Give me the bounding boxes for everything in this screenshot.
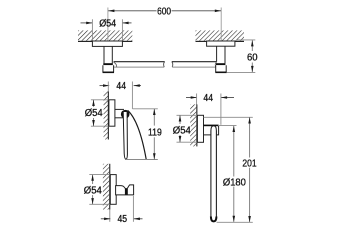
svg-text:45: 45: [118, 214, 128, 225]
hook body: [116, 185, 134, 195]
baseline bottom extension: [217, 221, 253, 223]
Ø54 dim line: [93, 100, 95, 107]
bar rail (right segment): [172, 61, 217, 63]
Ø54 top extension: [89, 174, 110, 176]
dim 45 line left: [101, 218, 111, 220]
dim 44 line left: [186, 97, 197, 99]
left end cap: [103, 65, 114, 72]
Ø54 bottom extension: [177, 141, 198, 143]
ring bottom cap (thick): [211, 217, 217, 222]
svg-text:600: 600: [157, 7, 171, 18]
Ø54 top extension: [177, 114, 198, 116]
dim 45 line right: [134, 218, 143, 220]
wall line right: [196, 41, 245, 42]
left escutcheon flange: [92, 41, 122, 46]
Ø54 label: [172, 125, 191, 134]
svg-text:Ø180: Ø180: [223, 178, 246, 189]
dim 119 top extension: [133, 108, 158, 110]
wall line lower extension: [109, 210, 111, 222]
dim Ø54 extension lines: [91, 19, 93, 41]
Ø54 label: [83, 185, 103, 194]
dim Ø180 line: [233, 126, 235, 177]
svg-text:60: 60: [247, 53, 258, 64]
svg-text:44: 44: [203, 93, 213, 104]
svg-text:201: 201: [242, 159, 257, 170]
svg-text:Ø54: Ø54: [85, 108, 103, 119]
right end cap: [216, 65, 227, 72]
dim 600 extension line left: [107, 8, 109, 41]
Ø54 dim line: [92, 175, 94, 184]
Ø54 bottom extension: [89, 203, 110, 205]
dim 119 bottom extension: [126, 159, 158, 161]
arm front strip: [123, 112, 127, 160]
Ø54 top extension: [91, 99, 109, 101]
hub block: [204, 125, 219, 135]
dim 600 arrow right: [215, 10, 221, 13]
bar rail (left segment): [114, 61, 165, 63]
dim Ø180 label: [222, 177, 247, 187]
flange (side view): [110, 175, 116, 205]
dim 44 extension right: [220, 94, 222, 125]
left stem: [103, 46, 105, 63]
svg-text:119: 119: [148, 127, 162, 138]
dim 600 arrow left: [108, 10, 114, 13]
hook waist shading: [125, 189, 128, 195]
dim 60 extension bottom: [227, 71, 256, 73]
dim 600 extension line right: [220, 8, 222, 41]
dim 600 line: [108, 10, 156, 12]
dim 44 extension left / wall top: [196, 94, 198, 105]
svg-text:44: 44: [116, 81, 126, 92]
dim 201 top extension: [204, 116, 253, 118]
wall line left: [78, 41, 132, 42]
flange (side view): [109, 100, 115, 126]
dim Ø180 top extension: [218, 124, 237, 126]
dim 60 extension top: [236, 39, 255, 41]
dim 44 extension right: [131, 82, 133, 109]
wall hatch right: [196, 30, 245, 40]
dim Ø54 right line+arrow (outside): [122, 22, 131, 24]
right joint dark band: [216, 63, 225, 65]
dim 44 line right: [221, 97, 234, 99]
wall hatch: [190, 104, 196, 146]
dim 60 line: [251, 40, 253, 51]
bar break marks: [164, 62, 165, 67]
Ø54 dim line: [179, 115, 181, 124]
right stem: [216, 46, 218, 62]
arm outer curve: [128, 110, 147, 159]
pivot knob (dark): [121, 110, 130, 119]
Ø54 bottom extension: [91, 125, 109, 127]
dim 44 extension left / wall top: [107, 82, 109, 93]
wall line: [196, 104, 197, 146]
ring strip (side view): [211, 126, 217, 222]
svg-text:Ø54: Ø54: [84, 185, 102, 196]
Ø54 label: [84, 108, 104, 118]
svg-text:Ø54: Ø54: [173, 125, 191, 136]
dim 60 arrows: [251, 40, 254, 46]
flange (side view): [197, 115, 203, 142]
dim 201 line: [249, 117, 251, 157]
dim 45 extension right: [132, 196, 134, 222]
wall hatch: [104, 92, 108, 140]
svg-text:Ø54: Ø54: [99, 19, 116, 30]
wall line: [109, 164, 110, 210]
left joint dark band: [103, 63, 113, 65]
hub lines: [115, 108, 124, 110]
dim 44 line left: [100, 85, 110, 87]
dim Ø54 left line+arrow (outside): [81, 22, 93, 24]
dim 44 line right: [134, 85, 141, 87]
right escutcheon flange: [207, 41, 235, 46]
hub top dark line: [204, 125, 219, 127]
wall hatch: [103, 164, 109, 210]
dim 119 line: [153, 109, 155, 126]
wall line: [108, 92, 109, 140]
wall hatch left: [78, 30, 132, 40]
